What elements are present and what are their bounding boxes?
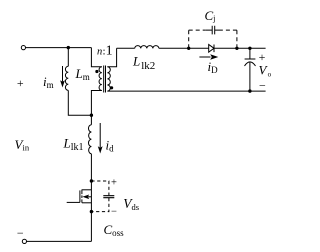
svg-text:iD: iD	[208, 59, 219, 75]
transistor Q1 gate plate	[79, 190, 81, 202]
transistor Q1 channel segments	[81, 190, 83, 203]
svg-text:−: −	[259, 78, 266, 92]
capacitor Coss plates	[103, 196, 114, 198]
transformer T1 secondary winding	[107, 67, 110, 91]
svg-text:id: id	[106, 138, 115, 154]
wire secondary top stub	[107, 48, 116, 66]
arrow current im	[62, 66, 64, 82]
svg-text:−: −	[17, 226, 24, 240]
wire primary bottom stub	[91, 91, 101, 125]
wire primary top vertical	[91, 48, 101, 67]
inductor Llk1	[89, 125, 92, 154]
node junction output cap top	[248, 47, 251, 50]
wire drain vertical	[90, 154, 92, 242]
svg-text:im: im	[43, 74, 54, 90]
node junction Cj right	[235, 47, 238, 50]
node junction Lm/primary	[90, 114, 93, 117]
capacitor Cj dashed branch	[189, 30, 206, 48]
wire Lm upper lead	[67, 48, 69, 67]
svg-text:+: +	[17, 76, 24, 90]
svg-text:n:1: n:1	[97, 44, 113, 59]
capacitor Cj	[205, 29, 222, 31]
node junction Cj left	[187, 47, 190, 50]
wire diode to output	[214, 47, 266, 49]
inductor Lm	[65, 66, 68, 90]
svg-text:Coss: Coss	[104, 222, 125, 238]
transistor Q1 source connection	[82, 202, 92, 204]
wire Lm lower lead	[68, 90, 91, 115]
svg-text:Vo: Vo	[259, 63, 272, 79]
wire bottom input rail	[27, 240, 92, 242]
node source (dashed Coss bottom)	[90, 210, 93, 213]
svg-text:−: −	[111, 206, 117, 217]
inductor Llk2	[135, 46, 159, 49]
node junction output cap bottom	[248, 89, 251, 92]
svg-text:Vin: Vin	[15, 137, 30, 153]
arrow current iD	[199, 56, 210, 58]
svg-text:Llk1: Llk1	[63, 136, 84, 153]
arrow current id	[99, 123, 101, 148]
svg-text:Vds: Vds	[123, 196, 139, 212]
transformer polarity dot secondary	[110, 86, 113, 89]
diode D1	[209, 45, 214, 53]
wire rail to diode	[159, 47, 209, 49]
svg-text:Llk2: Llk2	[132, 54, 155, 72]
capacitor Coss dashed branch	[91, 181, 109, 195]
input terminal top (+)	[21, 46, 25, 50]
node drain (dashed Coss top)	[90, 179, 93, 182]
wire bottom rail secondary	[107, 90, 265, 92]
transformer core lines	[104, 66, 106, 93]
input terminal bottom (-)	[22, 239, 26, 243]
transistor Q1 MOSFET drain connection	[82, 189, 92, 191]
svg-text:+: +	[111, 178, 117, 189]
transistor Q1 body arrow	[88, 196, 91, 198]
wire top-left rail	[26, 47, 92, 49]
capacitor Co output	[245, 48, 256, 59]
transformer T1 primary winding	[99, 67, 102, 91]
svg-text:Lm: Lm	[75, 66, 90, 82]
wire top-right rail segment 1	[117, 47, 135, 49]
transistor Q1 gate lead	[67, 201, 80, 203]
svg-text:Cj: Cj	[205, 8, 216, 23]
node junction top of Lm	[67, 46, 70, 49]
transformer polarity dot primary	[95, 70, 98, 73]
